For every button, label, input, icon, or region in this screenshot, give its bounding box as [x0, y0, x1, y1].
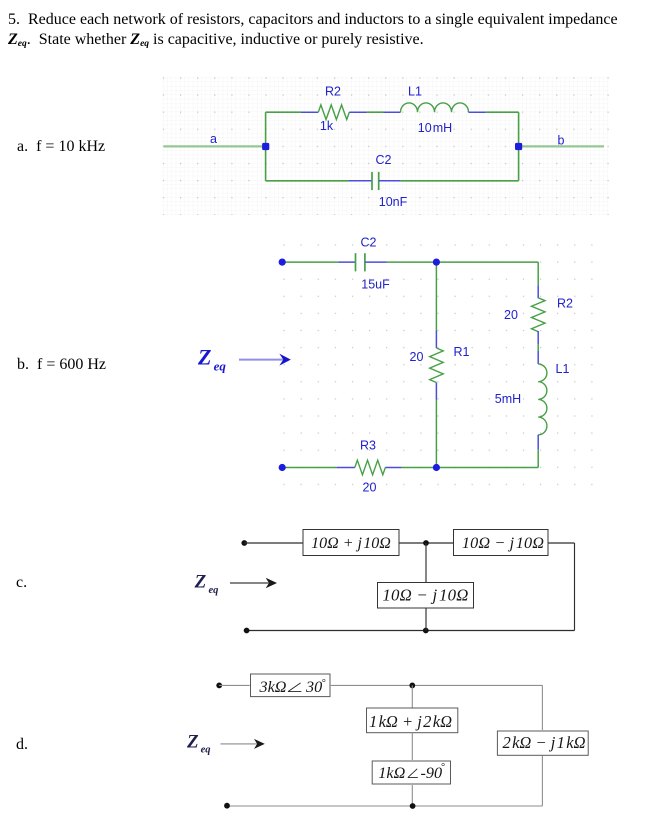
label C2: [376, 153, 392, 167]
wire right mid b: [537, 344, 539, 351]
value 15uF: [361, 278, 390, 292]
pin C2 right b: [365, 261, 387, 263]
wire bottom d: [227, 805, 542, 807]
wire top mid d: [331, 684, 543, 686]
svg-text:R2: R2: [325, 85, 341, 99]
wire top left b: [282, 261, 338, 263]
impedance box 1k+j2k: [367, 708, 458, 733]
svg-text:1k: 1k: [320, 119, 334, 133]
pin C2 left: [349, 180, 372, 182]
wire middle mid vertical d: [411, 733, 413, 760]
svg-text:10Ω − j 10Ω: 10Ω − j 10Ω: [462, 534, 544, 552]
node b terminal: [515, 143, 522, 150]
svg-text:5mH: 5mH: [495, 392, 521, 406]
value 5mH: [495, 392, 521, 406]
wire mid top: [367, 111, 384, 113]
value 1k: [320, 119, 334, 133]
Zeq label b: [197, 344, 226, 373]
svg-text:°: °: [441, 762, 445, 773]
svg-text:15uF: 15uF: [361, 278, 390, 292]
label R2 b: [557, 297, 573, 311]
wire top right c: [548, 542, 575, 544]
label L1 b: [556, 362, 570, 376]
pin C2 left b: [338, 261, 355, 263]
svg-text:10 mH: 10 mH: [418, 121, 452, 135]
grid part a: [162, 77, 609, 215]
svg-text:Z: Z: [197, 344, 211, 369]
svg-text:20: 20: [363, 481, 377, 495]
wire right bottom vertical: [537, 450, 539, 468]
svg-text:10nF: 10nF: [379, 195, 408, 209]
impedance box 10+j10: [303, 530, 399, 556]
node bottom junction d: [410, 803, 416, 809]
svg-text:eq: eq: [214, 359, 227, 374]
pin L1 top b: [537, 351, 539, 364]
terminal top left c: [241, 540, 247, 546]
pin R2 right: [349, 111, 366, 113]
wire middle bottom vertical c: [425, 608, 427, 631]
node a terminal: [262, 143, 269, 150]
wire middle top vertical c: [425, 543, 427, 583]
node top junction b: [433, 259, 440, 266]
svg-text:R2: R2: [557, 297, 573, 311]
wire top mid b: [387, 261, 437, 263]
impedance box 2k-j1k: [497, 731, 588, 755]
wire right top vertical d: [541, 685, 543, 730]
svg-text:L1: L1: [408, 84, 422, 98]
label R3: [360, 439, 376, 453]
label C2 b: [361, 236, 377, 250]
svg-text:-90: -90: [421, 764, 443, 782]
value 20 R1: [410, 350, 424, 364]
wire right vertical c: [574, 543, 576, 631]
value 20 R3: [363, 481, 377, 495]
node bottom junction b: [433, 464, 440, 471]
label L1: [408, 84, 422, 98]
pin R3 right: [385, 467, 401, 469]
svg-text:20: 20: [504, 308, 518, 322]
wire bottom left: [266, 180, 349, 182]
Zeq label c: [194, 571, 219, 595]
node top junction c: [423, 540, 429, 546]
svg-text:b: b: [558, 133, 565, 147]
svg-text:30: 30: [305, 678, 322, 696]
node label a: [210, 132, 217, 146]
impedance box 10-j10 top: [454, 530, 549, 556]
value 20 R2: [504, 308, 518, 322]
wire bottom mid b: [402, 467, 437, 469]
wire middle top vertical d: [411, 685, 413, 707]
Zeq label d: [186, 731, 211, 755]
wire left vertical: [265, 112, 267, 181]
svg-text:1 kΩ + j 2 kΩ: 1 kΩ + j 2 kΩ: [369, 712, 452, 731]
svg-text:R1: R1: [454, 345, 470, 359]
wire top right: [486, 111, 519, 113]
wire R1 bottom vertical: [435, 400, 437, 468]
wire b stub: [519, 145, 604, 147]
wire bottom c: [247, 630, 575, 632]
label c.: [16, 573, 27, 592]
capacitor C2: [372, 172, 379, 190]
label R2: [325, 85, 341, 99]
svg-text:°: °: [322, 678, 326, 689]
svg-text:Z: Z: [186, 731, 199, 752]
wire a stub: [164, 145, 266, 147]
svg-text:R3: R3: [360, 439, 376, 453]
svg-text:C2: C2: [376, 153, 392, 167]
value 10 mH: [418, 121, 452, 135]
terminal top left d: [216, 683, 222, 689]
svg-text:2 kΩ − j 1 kΩ: 2 kΩ − j 1 kΩ: [502, 733, 585, 752]
resistor R2: [318, 105, 349, 120]
pin R2 bottom b: [537, 331, 539, 344]
svg-text:10Ω − j 10Ω: 10Ω − j 10Ω: [382, 585, 468, 604]
label b. f = 600 Hz: [17, 355, 106, 374]
node bottom junction c: [423, 628, 429, 634]
impedance box 3k30: [251, 674, 331, 697]
terminal top left b: [279, 259, 286, 266]
capacitor C2 b: [356, 253, 365, 271]
pin C2 right: [379, 180, 401, 182]
pin R2 top b: [537, 285, 539, 298]
Zeq arrow b: [239, 354, 291, 366]
svg-text:Z: Z: [194, 571, 207, 592]
wire top left d: [219, 684, 250, 686]
resistor R1: [430, 348, 444, 383]
pin R2 left: [301, 111, 318, 113]
Zeq arrow c: [230, 578, 277, 589]
wire right top vertical: [537, 262, 539, 285]
value 10nF: [379, 195, 408, 209]
inductor L1 b: [538, 364, 547, 435]
svg-text:1kΩ: 1kΩ: [378, 764, 405, 782]
pin L1 left: [384, 111, 401, 113]
svg-text:L1: L1: [556, 362, 570, 376]
wire top right b: [436, 261, 538, 263]
svg-text:eq: eq: [201, 745, 211, 756]
wire bottom right b: [436, 467, 538, 469]
svg-text:eq: eq: [209, 585, 219, 596]
grid part b: [283, 244, 594, 486]
svg-text:3kΩ: 3kΩ: [259, 678, 287, 696]
terminal bottom left d: [224, 803, 230, 809]
wire top mid c: [399, 542, 454, 544]
terminal bottom left b: [279, 464, 286, 471]
wire right bottom vertical d: [541, 756, 543, 806]
label R1: [454, 345, 470, 359]
wire top left c: [244, 542, 303, 544]
pin L1 right: [469, 111, 486, 113]
pin L1 bottom b: [537, 435, 539, 450]
terminal bottom left c: [244, 628, 250, 634]
svg-text:C2: C2: [361, 236, 377, 250]
wire top left: [266, 111, 301, 113]
impedance box 1k-90: [372, 761, 450, 784]
wire right vertical: [518, 112, 520, 181]
svg-text:20: 20: [410, 350, 424, 364]
wire bottom left b: [282, 467, 336, 469]
svg-text:10Ω + j 10Ω: 10Ω + j 10Ω: [311, 535, 391, 552]
node top junction d: [409, 683, 415, 689]
resistor R3: [355, 460, 386, 475]
impedance box 10-j10 middle: [378, 583, 474, 609]
wire R1 top vertical: [435, 262, 437, 330]
pin R1 bottom: [435, 383, 437, 400]
inductor L1: [401, 103, 469, 112]
title text: [8, 10, 653, 54]
resistor R2 b: [532, 298, 546, 332]
node label b: [558, 133, 565, 147]
wire bottom right: [401, 180, 519, 182]
Zeq arrow d: [221, 739, 265, 749]
label a. f = 10 kHz: [17, 137, 105, 156]
svg-text:a: a: [210, 132, 217, 146]
wire middle bottom vertical d: [411, 785, 413, 806]
pin R3 left: [337, 467, 355, 469]
label d.: [16, 735, 28, 754]
pin R1 top: [435, 330, 437, 348]
